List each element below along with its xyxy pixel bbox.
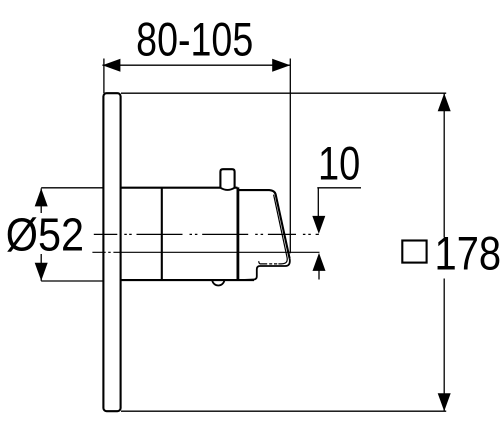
arrow tail 10 [318, 271, 320, 280]
body bottom edge [121, 279, 254, 281]
extension line right 80-105 / front face [289, 59, 291, 254]
arrow up 10 [313, 253, 326, 271]
dimension Ø52 [40, 188, 42, 213]
outlet centerline [269, 263, 277, 265]
handle outer profile [239, 190, 290, 258]
extension line left 80-105 [103, 59, 105, 94]
arrow left 80-105 [102, 59, 120, 72]
extension line Ø52 top [41, 187, 102, 189]
centerline upper (valve axis) [94, 233, 319, 235]
body divider [161, 188, 163, 281]
centerline lower (outlet axis) [92, 251, 319, 253]
dimension line 178 [443, 93, 445, 237]
svg-text:80-105: 80-105 [136, 13, 253, 66]
extension line Ø52 bottom [41, 280, 102, 282]
arrow down 178 [438, 393, 451, 411]
square symbol [402, 241, 426, 263]
knob base fillet [220, 188, 234, 190]
body top edge [121, 187, 238, 189]
wall plate [103, 93, 120, 411]
handle inner line [259, 195, 288, 264]
svg-text:Ø52: Ø52 [6, 209, 84, 261]
arrow up Ø52 [35, 188, 48, 206]
front bar (escutcheon face) [236, 187, 239, 280]
bottom bump [212, 280, 224, 285]
arrow down Ø52 [35, 263, 48, 281]
svg-text:10: 10 [318, 137, 360, 190]
svg-text:178: 178 [435, 227, 500, 280]
handle underside / outlet step [239, 258, 290, 280]
arrow up 178 [438, 93, 451, 111]
knob [220, 169, 234, 188]
extension line top (178) [121, 92, 446, 94]
arrow right 80-105 [272, 59, 290, 72]
dimension 10 leader [317, 187, 361, 189]
arrow down 10 [312, 216, 325, 234]
dimension line 80-105 [102, 64, 290, 66]
extension line bottom (178) [121, 410, 446, 412]
